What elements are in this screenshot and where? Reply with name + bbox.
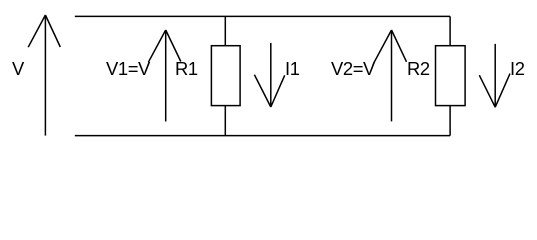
label V2=V [331,62,375,75]
wire R2 bottom lead [449,106,451,136]
arrow V2 (up) [374,30,406,121]
resistor R2 [436,46,466,106]
wire R1 bottom lead [224,106,226,136]
label I1 [285,62,300,75]
resistor R1 [211,46,240,106]
wire R2 top lead [449,16,451,45]
label V [12,62,24,75]
label I2 [510,62,525,75]
label R1 [175,62,198,75]
arrow V1 (up) [148,30,180,122]
arrow I2 (down) [479,44,510,107]
label V1=V [106,62,150,75]
wire bottom [75,135,450,137]
arrow V (up) [28,15,60,136]
wire top [75,15,450,17]
arrow I1 (down) [254,43,284,107]
label R2 [407,62,430,75]
wire R1 top lead [224,16,226,45]
